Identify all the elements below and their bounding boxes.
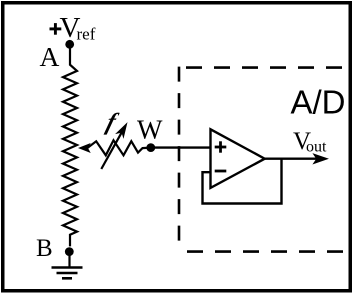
svg-text:ref: ref	[77, 25, 96, 44]
svg-text:B: B	[36, 235, 53, 262]
svg-text:out: out	[306, 139, 327, 156]
svg-text:A: A	[40, 41, 60, 72]
svg-text:A/D: A/D	[291, 84, 346, 121]
svg-text:W: W	[137, 115, 163, 145]
